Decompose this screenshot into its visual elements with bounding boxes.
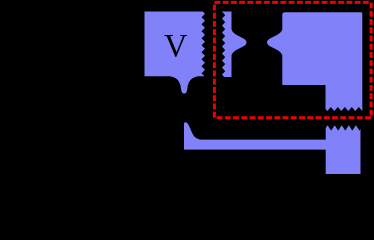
svg-text:V: V (164, 28, 188, 64)
valve outlet chamber (cusp on left, stepped bottom, serrated bottom edge) (267, 12, 362, 111)
flow channel (flared left tip) (184, 122, 327, 149)
flow outlet block (serrated top edge) (326, 125, 361, 174)
red dashed highlight box (214, 2, 371, 117)
control chamber V (serrated right edge, drip-shaped outlet at bottom) (145, 12, 206, 94)
valve inlet strip (serrated left edge, nozzle cusp on right) (222, 12, 247, 78)
